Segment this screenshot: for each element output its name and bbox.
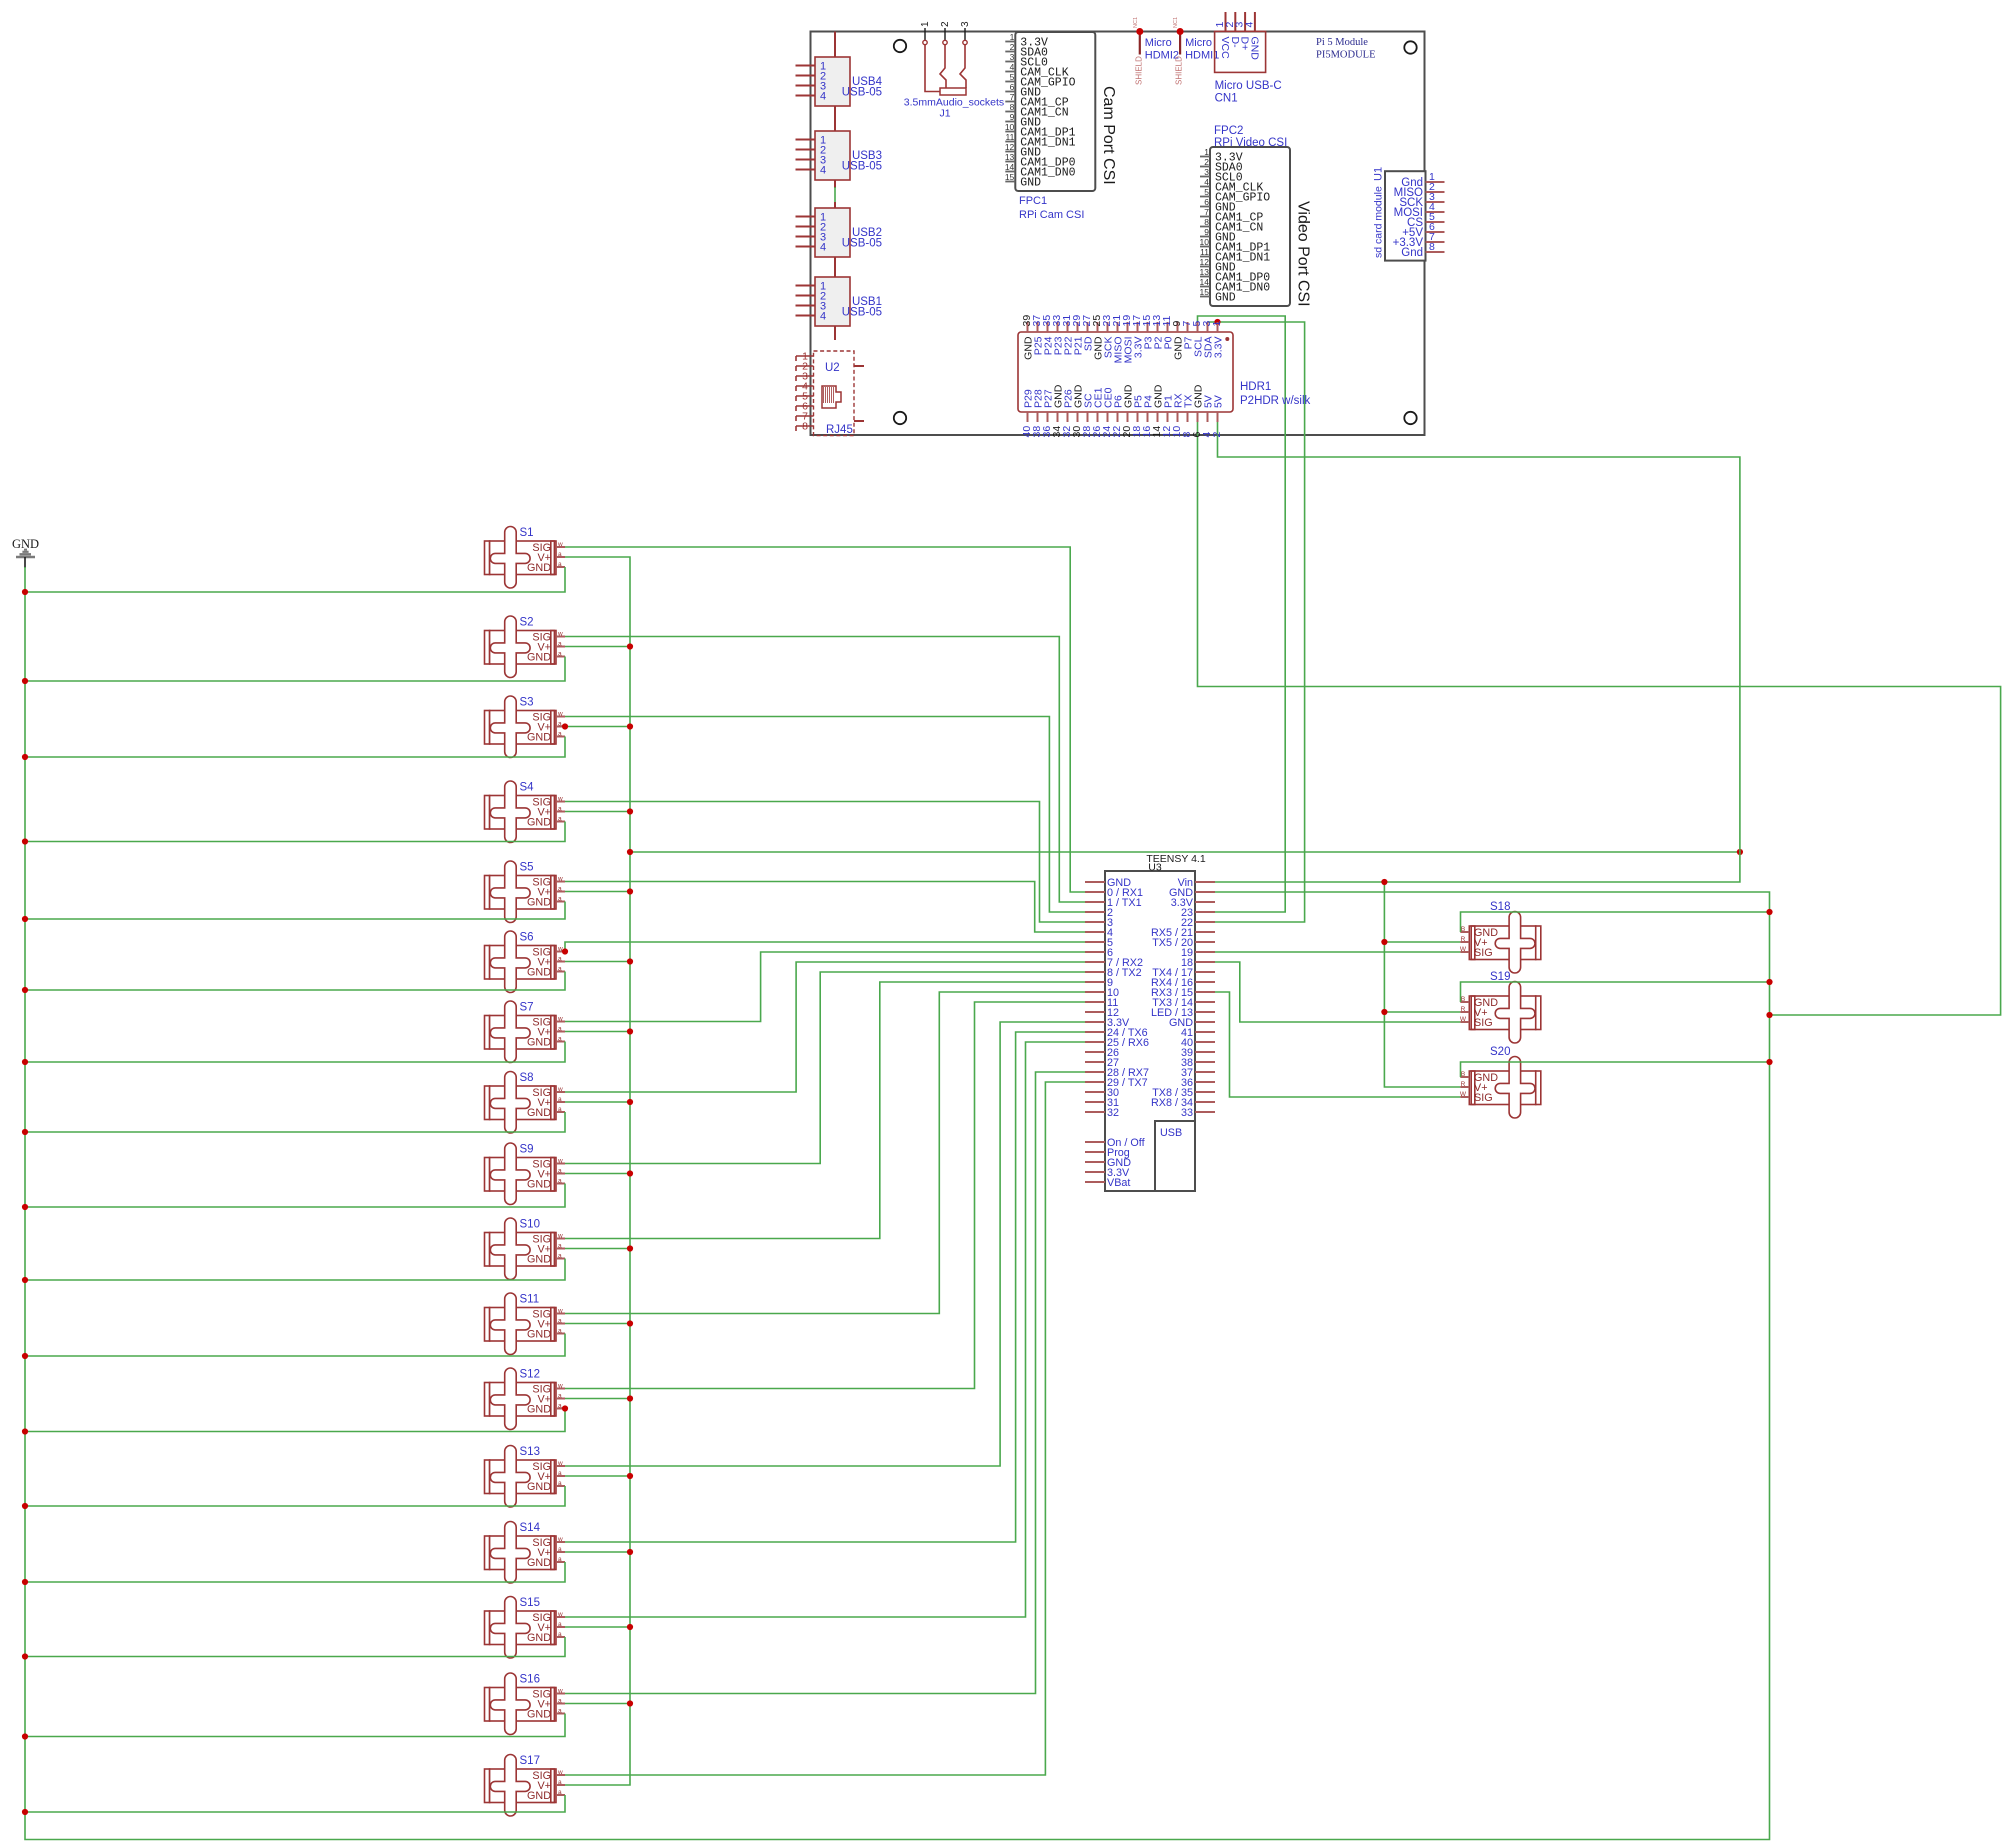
connector Micro HDMI2: [1133, 17, 1179, 85]
wire S7 V+ to trunk: [565, 1031, 630, 1033]
svg-text:USB: USB: [1160, 1127, 1182, 1139]
svg-text:RJ45: RJ45: [826, 424, 853, 436]
svg-text:11: 11: [1005, 132, 1014, 142]
junction V+ feed at trunk: [627, 849, 633, 855]
junction S8 V+ trunk: [627, 1099, 633, 1105]
svg-text:2: 2: [1204, 157, 1209, 167]
wire S10 SIG to Teensy: [565, 982, 1085, 1239]
svg-text:a: a: [558, 1403, 562, 1410]
svg-text:15: 15: [1005, 172, 1015, 182]
svg-text:GND: GND: [527, 967, 551, 979]
connector FPC1 RPi Cam CSI: [1005, 32, 1117, 221]
wire S20 GND loop to trunk: [1461, 1062, 1770, 1077]
svg-text:a: a: [558, 1470, 562, 1477]
svg-text:RPi Cam CSI: RPi Cam CSI: [1019, 209, 1084, 221]
svg-text:S1: S1: [520, 527, 534, 539]
svg-text:7: 7: [1010, 92, 1015, 102]
wire S10 GND loop: [25, 1259, 565, 1281]
svg-text:a: a: [558, 806, 562, 813]
svg-text:w: w: [557, 631, 563, 638]
junction S2 V+ trunk: [627, 643, 633, 649]
svg-text:13: 13: [1005, 152, 1015, 162]
svg-text:S10: S10: [520, 1219, 540, 1231]
svg-text:1: 1: [1204, 147, 1209, 157]
svg-text:w: w: [557, 541, 563, 548]
connector S10 servo: [485, 1218, 566, 1280]
wire S5 SIG to Teensy: [565, 882, 1085, 933]
svg-text:J1: J1: [939, 108, 950, 120]
svg-text:S4: S4: [520, 782, 535, 794]
wire S8 V+ to trunk: [565, 1101, 630, 1103]
svg-text:10: 10: [1005, 122, 1015, 132]
svg-text:3.3V: 3.3V: [1213, 337, 1225, 359]
svg-text:9: 9: [1010, 112, 1015, 122]
svg-text:w: w: [557, 1086, 563, 1093]
svg-text:GND: GND: [527, 1557, 551, 1569]
wire S3 GND loop: [25, 737, 565, 758]
wire S9 GND loop: [25, 1184, 565, 1208]
svg-text:a: a: [558, 956, 562, 963]
svg-text:SIG: SIG: [1474, 947, 1493, 959]
wire S13 GND loop: [25, 1486, 565, 1506]
wire stub USB2 upper: [834, 202, 836, 208]
junction S9 V+ trunk: [627, 1170, 633, 1176]
junction S9 GND at bus: [22, 1204, 28, 1210]
connector S4 servo: [485, 781, 566, 842]
wire S18 GND loop to trunk: [1461, 912, 1770, 932]
svg-text:6: 6: [1010, 82, 1015, 92]
connector S17 servo: [485, 1755, 566, 1817]
connector HDR1 P2HDR w/silk: [1018, 315, 1311, 438]
svg-text:6: 6: [1204, 197, 1209, 207]
junction S13 GND at bus: [22, 1503, 28, 1509]
junction S2 GND at bus: [22, 678, 28, 684]
svg-text:12: 12: [1200, 257, 1210, 267]
svg-text:Cam Port CSI: Cam Port CSI: [1100, 86, 1117, 185]
svg-text:S2: S2: [520, 617, 534, 629]
svg-text:3: 3: [1010, 52, 1015, 62]
wire S11 GND loop: [25, 1334, 565, 1357]
wire S13 SIG to Teensy: [565, 1022, 1085, 1466]
connector S6 servo: [485, 931, 566, 993]
svg-text:33: 33: [1181, 1107, 1193, 1119]
junction GND right loop at trunk: [1766, 1012, 1772, 1018]
svg-text:w: w: [557, 1158, 563, 1165]
wire stub USB4-USB3: [834, 106, 836, 131]
svg-text:7: 7: [1204, 207, 1209, 217]
svg-text:9: 9: [1204, 227, 1209, 237]
svg-text:a: a: [558, 886, 562, 893]
svg-text:5: 5: [1204, 187, 1209, 197]
svg-text:a: a: [558, 641, 562, 648]
label Pi 5 Module: [1316, 37, 1368, 48]
wire S7 GND loop: [25, 1042, 565, 1063]
junction S10 V+ trunk: [627, 1245, 633, 1251]
svg-text:a: a: [558, 1178, 562, 1185]
svg-text:GND: GND: [527, 562, 551, 574]
svg-text:5: 5: [1010, 72, 1015, 82]
junction S5 GND at bus: [22, 916, 28, 922]
svg-text:a: a: [558, 966, 562, 973]
wire S6 V+ to trunk: [565, 961, 630, 963]
svg-text:SHIELD: SHIELD: [1175, 56, 1184, 85]
wire HDR1 SCL to Teensy 23: [1198, 316, 1286, 912]
connector Micro HDMI1: [1173, 17, 1219, 85]
svg-text:a: a: [558, 1318, 562, 1325]
connector S8 servo: [485, 1072, 566, 1134]
junction S6 V+ trunk: [627, 958, 633, 964]
svg-text:1: 1: [920, 21, 931, 27]
connector S19 servo: [1460, 971, 1541, 1043]
wire S12 GND loop: [25, 1409, 565, 1432]
svg-text:a: a: [558, 1789, 562, 1796]
wire S8 SIG to Teensy: [565, 962, 1085, 1092]
svg-text:GND: GND: [527, 1329, 551, 1341]
svg-text:PI5MODULE: PI5MODULE: [1316, 50, 1376, 61]
svg-text:GND: GND: [527, 1254, 551, 1266]
junction S15 V+ trunk: [627, 1624, 633, 1630]
svg-text:14: 14: [1200, 277, 1210, 287]
svg-text:a: a: [558, 1393, 562, 1400]
junction S3 GND at bus: [22, 754, 28, 760]
mounting hole bottom-left: [894, 412, 906, 424]
svg-text:Pi 5 Module: Pi 5 Module: [1316, 37, 1368, 48]
wire V+ feed to right: [630, 851, 1740, 853]
junction V+ feed at Vin riser: [1737, 849, 1743, 855]
wire S9 V+ to trunk: [565, 1173, 630, 1175]
svg-text:U3: U3: [1148, 862, 1162, 874]
svg-text:S12: S12: [520, 1369, 540, 1381]
wire HDR1 5V to Teensy Vin: [1215, 422, 1740, 882]
svg-text:a: a: [558, 1708, 562, 1715]
svg-text:R: R: [1461, 1081, 1466, 1088]
wire S11 SIG to Teensy: [565, 992, 1085, 1314]
svg-text:USB-05: USB-05: [842, 87, 882, 99]
svg-text:14: 14: [1005, 162, 1015, 172]
wire S5 GND loop: [25, 902, 565, 920]
svg-text:SIG: SIG: [1474, 1017, 1493, 1029]
wire S16 GND loop: [25, 1714, 565, 1737]
wire stub below USB1: [834, 326, 836, 340]
svg-text:4: 4: [820, 242, 826, 254]
svg-text:GND: GND: [527, 732, 551, 744]
svg-text:GND: GND: [527, 1404, 551, 1416]
svg-text:S9: S9: [520, 1144, 534, 1156]
wire S14 V+ to trunk: [565, 1551, 630, 1553]
svg-text:w: w: [557, 876, 563, 883]
svg-text:B: B: [1461, 1071, 1465, 1078]
ground GND symbol: [12, 537, 39, 568]
svg-text:GND: GND: [527, 1790, 551, 1802]
wire V+ trunk vertical: [565, 557, 630, 1785]
svg-text:S15: S15: [520, 1597, 540, 1609]
svg-text:CN1: CN1: [1215, 93, 1238, 105]
junction S15 GND at bus: [22, 1653, 28, 1659]
wire stub above USB4: [834, 32, 836, 58]
wire S10 V+ to trunk: [565, 1248, 630, 1250]
svg-text:NC1: NC1: [1173, 17, 1179, 28]
junction S17 GND at bus: [22, 1809, 28, 1815]
svg-text:a: a: [558, 1779, 562, 1786]
svg-text:3.5mmAudio_sockets: 3.5mmAudio_sockets: [904, 97, 1004, 109]
svg-text:4: 4: [820, 91, 826, 103]
svg-text:32: 32: [1107, 1107, 1119, 1119]
connector USB3 USB-05: [796, 131, 883, 180]
wire green link USB3-USB2: [834, 187, 836, 203]
wire S19 SIG to Teensy 18: [1215, 962, 1460, 1022]
junction HDR1 pin1 on SDA wire: [1214, 319, 1220, 325]
svg-text:S7: S7: [520, 1002, 534, 1014]
svg-text:8: 8: [1204, 217, 1209, 227]
svg-text:Micro USB-C: Micro USB-C: [1215, 80, 1282, 92]
junction S4 V+ trunk: [627, 808, 633, 814]
svg-text:GND: GND: [527, 817, 551, 829]
svg-text:S11: S11: [520, 1294, 540, 1306]
svg-text:a: a: [558, 1168, 562, 1175]
wire S3 SIG to Teensy: [565, 717, 1085, 913]
junction S5 V+ trunk: [627, 888, 633, 894]
svg-text:P2HDR w/silk: P2HDR w/silk: [1240, 395, 1311, 407]
wire S4 GND loop: [25, 822, 565, 842]
svg-text:8: 8: [802, 421, 808, 433]
wire S20 SIG to Teensy RX3/15: [1215, 992, 1460, 1097]
svg-text:4: 4: [820, 311, 826, 323]
wire S17 GND loop: [25, 1795, 565, 1812]
svg-text:3: 3: [1204, 167, 1209, 177]
junction S18 GND at trunk: [1766, 909, 1772, 915]
svg-text:8: 8: [1010, 102, 1015, 112]
svg-text:10: 10: [1200, 237, 1210, 247]
junction S1 GND at bus: [22, 589, 28, 595]
connector S12 servo: [485, 1368, 566, 1429]
junction S19 V+: [1381, 1009, 1387, 1015]
junction S13 V+ trunk: [627, 1473, 633, 1479]
svg-text:U2: U2: [825, 362, 840, 374]
svg-text:GND: GND: [527, 1709, 551, 1721]
svg-text:w: w: [557, 1308, 563, 1315]
connector S15 servo: [485, 1597, 566, 1659]
wire S6 SIG jog to Teensy pin 5: [565, 942, 1085, 952]
connector S13 servo: [485, 1446, 566, 1508]
connector U2 RJ45: [796, 351, 864, 437]
svg-text:sd card module: sd card module: [1373, 186, 1385, 258]
svg-text:S6: S6: [520, 932, 534, 944]
wire S14 SIG to Teensy: [565, 1032, 1085, 1542]
svg-text:NC1: NC1: [1133, 17, 1139, 28]
svg-text:w: w: [557, 1536, 563, 1543]
wire S7 SIG to Teensy: [565, 952, 1085, 1022]
svg-text:w: w: [557, 1383, 563, 1390]
connector S7 servo: [485, 1001, 566, 1063]
svg-text:w: w: [557, 1769, 563, 1776]
svg-text:Video Port CSI: Video Port CSI: [1295, 201, 1312, 307]
svg-text:11: 11: [1200, 247, 1209, 257]
svg-text:USB-05: USB-05: [842, 161, 882, 173]
svg-text:FPC2: FPC2: [1214, 125, 1243, 137]
svg-text:SIG: SIG: [1474, 1092, 1493, 1104]
junction S20 GND at trunk: [1766, 1059, 1772, 1065]
wire S19 GND loop to trunk: [1461, 982, 1770, 1002]
svg-text:12: 12: [1005, 142, 1015, 152]
junction S11 V+ trunk: [627, 1320, 633, 1326]
wire S6 GND loop: [25, 972, 565, 991]
svg-text:a: a: [558, 651, 562, 658]
svg-text:w: w: [557, 796, 563, 803]
connector S16 servo: [485, 1673, 566, 1735]
junction S18 V+: [1381, 939, 1387, 945]
svg-text:R: R: [1461, 1006, 1466, 1013]
wire S4 V+ to trunk: [565, 811, 630, 813]
svg-text:GND: GND: [527, 897, 551, 909]
svg-text:2: 2: [1010, 42, 1015, 52]
svg-text:5V: 5V: [1213, 395, 1225, 408]
svg-text:1: 1: [1010, 32, 1015, 42]
wire S11 V+ to trunk: [565, 1323, 630, 1325]
wire S2 V+ to trunk: [565, 646, 630, 648]
junction S6 GND at bus: [22, 987, 28, 993]
svg-text:S16: S16: [520, 1674, 540, 1686]
svg-text:USB-05: USB-05: [842, 307, 882, 319]
wire HDR1 SDA to Teensy 22: [1208, 322, 1305, 922]
svg-text:1: 1: [1211, 321, 1223, 327]
wire S12 V+ to trunk: [565, 1398, 630, 1400]
svg-text:B: B: [1461, 926, 1465, 933]
svg-text:Gnd: Gnd: [1401, 247, 1423, 259]
svg-text:a: a: [558, 1036, 562, 1043]
wire S2 GND loop: [25, 657, 565, 682]
wire S13 V+ to trunk: [565, 1475, 630, 1477]
svg-text:w: w: [557, 1611, 563, 1618]
wire S4 SIG to Teensy: [565, 802, 1085, 923]
svg-text:a: a: [558, 1631, 562, 1638]
connector J1 3.5mmAudio_sockets: [904, 21, 1004, 120]
svg-text:w: w: [557, 1688, 563, 1695]
svg-text:a: a: [558, 551, 562, 558]
svg-text:GND: GND: [527, 1481, 551, 1493]
junction S3 V+ trunk: [627, 723, 633, 729]
svg-text:3: 3: [960, 21, 971, 27]
junction S16 GND at bus: [22, 1733, 28, 1739]
svg-text:VBat: VBat: [1107, 1177, 1130, 1189]
svg-text:S20: S20: [1490, 1046, 1510, 1058]
svg-text:Micro: Micro: [1145, 37, 1172, 49]
junction S8 GND at bus: [22, 1129, 28, 1135]
svg-text:a: a: [558, 1480, 562, 1487]
wire S17 SIG to Teensy: [565, 1082, 1085, 1775]
svg-text:S17: S17: [520, 1755, 540, 1767]
svg-text:a: a: [558, 1621, 562, 1628]
svg-text:a: a: [558, 731, 562, 738]
mounting hole top-right: [1404, 41, 1416, 53]
svg-text:GND: GND: [527, 1107, 551, 1119]
junction S3 V+ tip: [562, 723, 568, 729]
wire stub USB2-USB1: [834, 257, 836, 277]
wire S12 SIG to Teensy: [565, 1002, 1085, 1389]
connector S11 servo: [485, 1293, 566, 1355]
svg-text:15: 15: [1200, 287, 1210, 297]
wire V+ trunk S18-S20: [1384, 882, 1460, 1087]
svg-text:GND: GND: [527, 1632, 551, 1644]
connector USB4 USB-05: [796, 57, 883, 106]
svg-text:a: a: [558, 1243, 562, 1250]
svg-text:R: R: [1461, 936, 1466, 943]
svg-text:4: 4: [1243, 22, 1255, 28]
junction S14 GND at bus: [22, 1579, 28, 1585]
wire S9 SIG to Teensy: [565, 972, 1085, 1164]
svg-text:GND: GND: [527, 1037, 551, 1049]
junction S6 SIG tip: [562, 948, 568, 954]
junction S7 GND at bus: [22, 1059, 28, 1065]
svg-text:a: a: [558, 1556, 562, 1563]
wire HDR1 GND to right loop: [1198, 422, 2001, 1015]
wire S8 GND loop: [25, 1112, 565, 1132]
wire S15 GND loop: [25, 1637, 565, 1657]
connector S3 servo: [485, 696, 566, 758]
connector FPC2 RPi Video CSI: [1200, 125, 1312, 307]
junction S7 V+ trunk: [627, 1028, 633, 1034]
IC U3 TEENSY 4.1: [1085, 853, 1215, 1191]
connector S20 servo: [1460, 1046, 1541, 1118]
connector S14 servo: [485, 1522, 566, 1584]
svg-text:w: w: [557, 1460, 563, 1467]
svg-text:a: a: [558, 1026, 562, 1033]
wire S5 V+ to trunk: [565, 891, 630, 893]
svg-text:FPC1: FPC1: [1019, 195, 1047, 207]
svg-text:GND: GND: [1248, 37, 1260, 61]
connector S9 servo: [485, 1143, 566, 1205]
wire S18 SIG to Teensy 19: [1215, 951, 1460, 953]
svg-text:2: 2: [1211, 432, 1223, 438]
junction S12 V+ trunk: [627, 1395, 633, 1401]
mounting hole top-left: [894, 40, 906, 52]
svg-text:4: 4: [1204, 177, 1209, 187]
svg-text:S5: S5: [520, 862, 534, 874]
svg-text:S14: S14: [520, 1522, 541, 1534]
junction S12 GND tip: [562, 1405, 568, 1411]
Pi 5 Module board outline: [811, 32, 1425, 436]
connector USB2 USB-05: [796, 208, 883, 257]
svg-text:S8: S8: [520, 1072, 534, 1084]
label PI5MODULE: [1316, 50, 1376, 61]
wire S1 GND loop: [25, 567, 565, 592]
junction S11 GND at bus: [22, 1353, 28, 1359]
svg-text:W: W: [1460, 1016, 1467, 1023]
wire S1 SIG to Teensy: [565, 547, 1085, 892]
svg-text:GND: GND: [527, 652, 551, 664]
junction S10 GND at bus: [22, 1277, 28, 1283]
svg-text:RPi Video CSI: RPi Video CSI: [1214, 137, 1287, 149]
svg-text:a: a: [558, 1106, 562, 1113]
junction S19 GND at trunk: [1766, 979, 1772, 985]
svg-text:W: W: [1460, 1091, 1467, 1098]
svg-text:S3: S3: [520, 697, 534, 709]
svg-text:a: a: [558, 561, 562, 568]
wire S19 V+: [1384, 1011, 1460, 1013]
svg-text:a: a: [558, 1328, 562, 1335]
svg-text:w: w: [557, 711, 563, 718]
wire S16 V+ to trunk: [565, 1703, 630, 1705]
junction S4 GND at bus: [22, 838, 28, 844]
IC U1 sd card module: [1373, 167, 1445, 261]
wire S16 SIG to Teensy: [565, 1072, 1085, 1694]
wire GND bus left + bottom + right trunk to Teensy GND: [25, 567, 1770, 1840]
svg-text:4: 4: [820, 165, 826, 177]
connector CN1 Micro USB-C: [1214, 12, 1282, 105]
svg-text:a: a: [558, 896, 562, 903]
svg-text:GND: GND: [1020, 177, 1041, 190]
svg-text:13: 13: [1200, 267, 1210, 277]
svg-text:a: a: [558, 721, 562, 728]
